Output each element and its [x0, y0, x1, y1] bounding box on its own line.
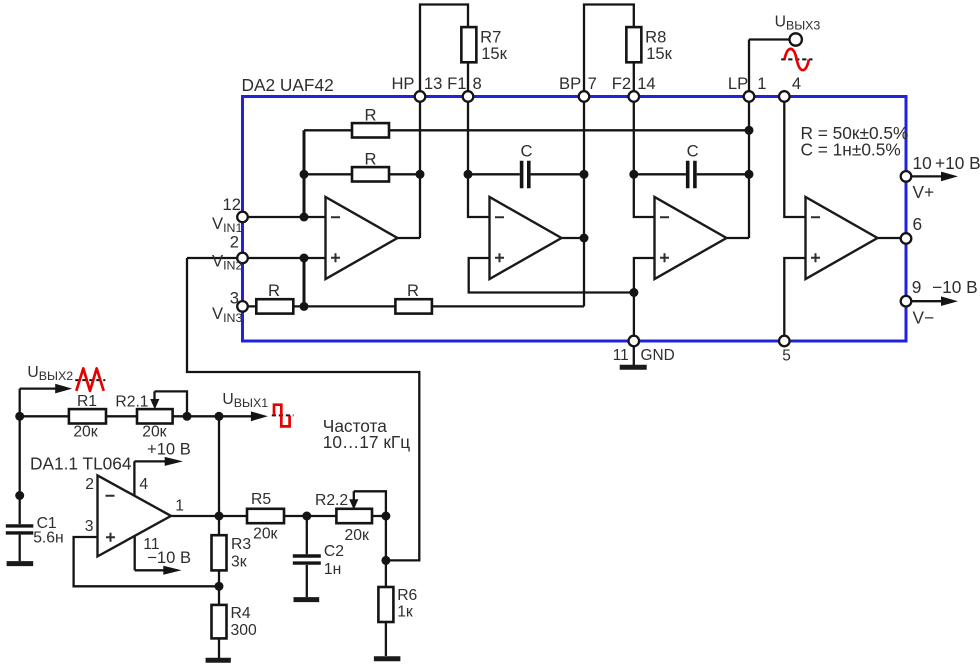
svg-text:4: 4 [139, 476, 148, 493]
svg-text:DA2 UAF42: DA2 UAF42 [242, 75, 334, 95]
svg-text:5.6н: 5.6н [33, 529, 63, 546]
svg-text:R3: R3 [231, 536, 251, 553]
svg-text:UВЫХ3: UВЫХ3 [775, 13, 821, 32]
svg-text:UВЫХ2: UВЫХ2 [27, 364, 73, 383]
svg-text:BP: BP [559, 74, 581, 93]
svg-text:1к: 1к [397, 604, 413, 621]
svg-text:20к: 20к [73, 424, 97, 441]
svg-text:3: 3 [85, 518, 94, 535]
svg-text:1: 1 [175, 498, 184, 515]
svg-text:R: R [365, 150, 377, 169]
svg-text:R5: R5 [251, 491, 271, 508]
svg-text:−10 В: −10 В [932, 277, 978, 297]
svg-text:9: 9 [912, 277, 922, 297]
svg-text:4: 4 [792, 74, 801, 93]
svg-text:2: 2 [230, 233, 239, 252]
svg-text:GND: GND [641, 347, 675, 364]
svg-text:+10 В: +10 В [935, 153, 980, 173]
svg-text:7: 7 [588, 74, 597, 93]
svg-text:R1: R1 [77, 393, 97, 410]
svg-text:12: 12 [223, 195, 241, 214]
svg-text:15к: 15к [646, 44, 672, 63]
svg-text:R2.2: R2.2 [315, 492, 348, 509]
svg-text:HP: HP [391, 74, 414, 93]
svg-text:2: 2 [85, 476, 94, 493]
svg-text:R: R [268, 281, 280, 300]
svg-text:11: 11 [613, 347, 629, 364]
svg-text:300: 300 [231, 622, 257, 639]
svg-text:R6: R6 [397, 587, 417, 604]
svg-text:C: C [521, 142, 533, 161]
svg-text:20к: 20к [253, 525, 277, 542]
svg-text:F1: F1 [447, 74, 466, 93]
svg-text:R2.1: R2.1 [115, 393, 148, 410]
svg-text:10: 10 [913, 153, 932, 173]
svg-text:3: 3 [230, 289, 239, 308]
svg-text:5: 5 [782, 348, 791, 365]
svg-text:14: 14 [637, 74, 655, 93]
svg-text:F2: F2 [612, 74, 631, 93]
svg-text:8: 8 [473, 74, 482, 93]
svg-text:DA1.1 TL064: DA1.1 TL064 [30, 453, 132, 473]
svg-text:1: 1 [757, 74, 766, 93]
svg-text:C = 1н±0.5%: C = 1н±0.5% [801, 139, 901, 159]
svg-text:20к: 20к [142, 424, 166, 441]
svg-text:−10 В: −10 В [147, 548, 191, 567]
svg-text:6: 6 [913, 214, 923, 234]
svg-text:1н: 1н [324, 561, 341, 578]
svg-text:R: R [407, 281, 419, 300]
svg-text:10…17 кГц: 10…17 кГц [323, 432, 410, 452]
svg-text:R4: R4 [231, 605, 251, 622]
svg-text:UВЫХ1: UВЫХ1 [222, 391, 268, 410]
svg-text:C2: C2 [324, 543, 344, 560]
svg-text:3к: 3к [231, 553, 247, 570]
svg-text:20к: 20к [345, 527, 369, 544]
svg-text:+10 В: +10 В [147, 440, 191, 459]
svg-text:V+: V+ [913, 182, 935, 202]
svg-text:LP: LP [728, 74, 748, 93]
svg-text:R: R [365, 106, 377, 125]
svg-text:15к: 15к [481, 44, 507, 63]
svg-text:C: C [687, 142, 699, 161]
svg-text:V−: V− [913, 308, 935, 328]
svg-text:13: 13 [424, 74, 442, 93]
